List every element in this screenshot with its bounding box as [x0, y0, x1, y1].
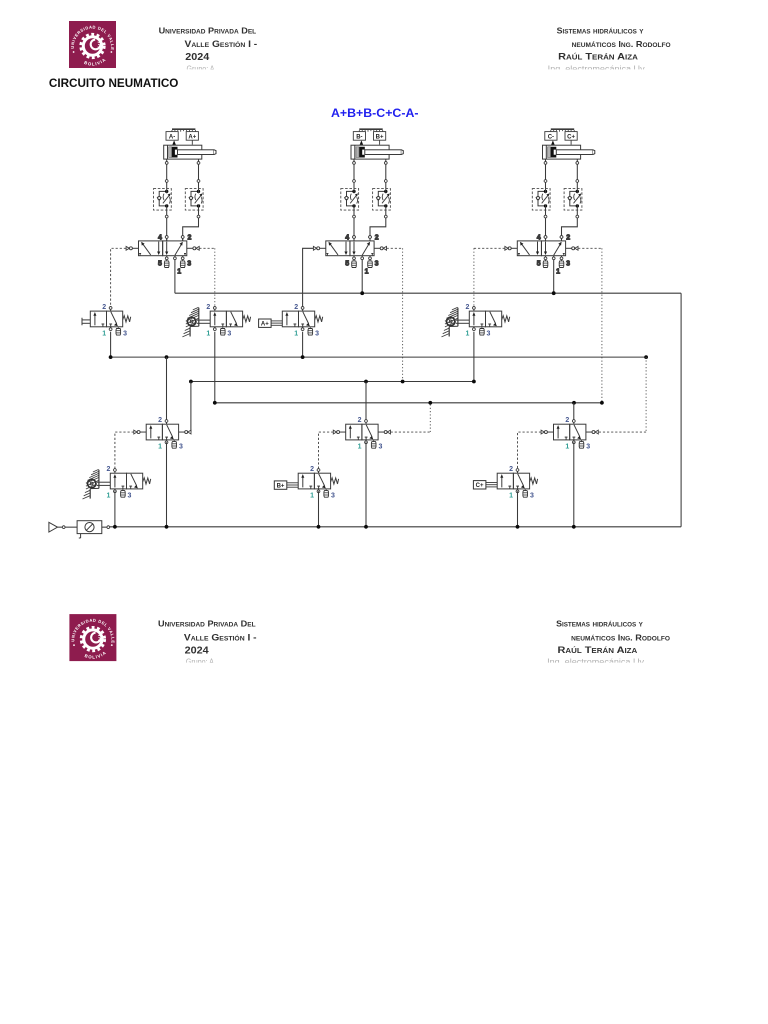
svg-text:Universidad Privada Del: Universidad Privada Del — [158, 619, 256, 629]
svg-text:3: 3 — [123, 331, 127, 338]
svg-text:3: 3 — [331, 493, 335, 500]
svg-text:2: 2 — [358, 417, 362, 424]
svg-text:Sistemas hidráulicos y: Sistemas hidráulicos y — [557, 26, 644, 36]
svg-text:C-: C- — [548, 134, 554, 140]
svg-text:Sistemas hidráulicos y: Sistemas hidráulicos y — [556, 619, 643, 629]
position label box B- — [353, 132, 365, 141]
svg-text:A+B+B-C+C-A-: A+B+B-C+C-A- — [331, 108, 419, 120]
piston position marker arrow C — [551, 140, 555, 145]
pilot wire: memory valve 2 right pilot up to line3 — [391, 431, 431, 433]
air service unit — [77, 521, 102, 538]
distance ruler cylinder C — [551, 129, 574, 132]
position label box B+ — [374, 132, 386, 145]
3/2 roller limit valve a1 — [206, 304, 250, 337]
supply riser on right side — [680, 293, 682, 527]
one-way flow control valve A right — [185, 189, 203, 211]
svg-text:1: 1 — [565, 444, 569, 451]
wire cylinder A right port down — [198, 159, 200, 189]
wire: A+ valve port 1 down to bus 1 — [302, 332, 304, 357]
wire B flow-control left to valve port 4 — [353, 210, 355, 241]
pilot wire: memory valve 3 left pilot to C+ valve port 2 — [518, 432, 542, 469]
svg-text:2: 2 — [158, 417, 162, 424]
supply manifold line to 5/2 valves — [175, 292, 681, 294]
svg-text:B+: B+ — [376, 134, 384, 140]
wire: valve B port 1 down to supply manifold — [361, 260, 363, 294]
svg-text:3: 3 — [530, 493, 534, 500]
svg-text:1: 1 — [106, 493, 110, 500]
svg-text:Valle Gestión I -: Valle Gestión I - — [185, 39, 258, 49]
svg-text:neumáticos Ing. Rodolfo: neumáticos Ing. Rodolfo — [571, 632, 670, 642]
right pneumatic pilot of memory valve 3 — [586, 430, 598, 434]
3/2 valve actuated by label B+ — [298, 466, 338, 499]
one-way flow control valve B left — [341, 189, 359, 211]
label box actuator C+ — [473, 481, 497, 490]
5/2-way double pilot valve C — [505, 235, 578, 276]
position label box A- — [166, 132, 178, 141]
pilot wire: memory valve 2 left pilot to B+ valve port 2 — [319, 432, 334, 469]
push button actuator — [82, 318, 90, 326]
header right text block — [548, 26, 671, 74]
wire: start valve port 1 down to bus 1 — [110, 332, 112, 357]
svg-text:Universidad Privada Del: Universidad Privada Del — [159, 26, 257, 36]
svg-text:2: 2 — [102, 304, 106, 311]
wire: bus1 down to memory valve 1 port 2 — [166, 357, 168, 420]
position label box A+ — [186, 132, 198, 145]
roller + trip rail a1 — [182, 307, 210, 337]
svg-text:1: 1 — [509, 493, 513, 500]
label box actuator A+ — [259, 319, 283, 328]
svg-text:3: 3 — [315, 331, 319, 338]
one-way flow control valve C right — [564, 189, 582, 211]
svg-text:Raúl Terán Aiza: Raúl Terán Aiza — [558, 645, 638, 656]
svg-text:1: 1 — [310, 493, 314, 500]
wire cylinder B left port down — [353, 159, 355, 189]
signal line 2 — [191, 381, 474, 383]
svg-text:3: 3 — [487, 331, 491, 338]
left pneumatic pilot of memory valve 2 — [333, 430, 345, 434]
3/2 double pilot memory valve 2 — [346, 417, 383, 450]
header left text block — [159, 26, 258, 74]
one-way flow control valve B right — [373, 189, 391, 211]
svg-text:1: 1 — [465, 331, 469, 338]
position label box C+ — [565, 132, 577, 145]
svg-text:1: 1 — [102, 331, 106, 338]
one-way flow control valve C left — [532, 189, 550, 211]
wire: valve a1 port 1 down to signal line 3 — [214, 332, 216, 403]
wire: line2 down to memory valve 1 right pilot — [190, 382, 192, 433]
compressed air source — [49, 522, 58, 532]
wire: valve A port 1 down to supply manifold — [174, 260, 176, 294]
svg-text:A-: A- — [169, 134, 175, 140]
3/2 double pilot memory valve 3 — [554, 417, 591, 450]
wire: B+ valve port 1 to supply line — [318, 491, 320, 527]
wire C flow-control right to valve port 2 — [562, 210, 578, 241]
wire cylinder B right port down — [385, 159, 387, 189]
svg-text:neumáticos Ing. Rodolfo: neumáticos Ing. Rodolfo — [572, 39, 671, 49]
right pneumatic pilot of memory valve 2 — [378, 430, 390, 434]
svg-text:2: 2 — [565, 417, 569, 424]
5/2-way double pilot valve B — [313, 235, 386, 276]
svg-text:CIRCUITO NEUMATICO: CIRCUITO NEUMATICO — [49, 76, 179, 90]
svg-text:Grupo: A: Grupo: A — [187, 64, 215, 74]
one-way flow control valve A left — [154, 189, 172, 211]
double-acting cylinder B — [351, 145, 403, 159]
roller + trip rail b1 — [442, 307, 470, 337]
svg-text:2024: 2024 — [185, 645, 210, 656]
svg-text:2: 2 — [465, 304, 469, 311]
wire cylinder C right port down — [576, 159, 578, 189]
svg-text:A+: A+ — [261, 322, 269, 328]
wire B flow-control right to valve port 2 — [370, 210, 386, 241]
svg-text:3: 3 — [179, 444, 183, 451]
signal line 3 — [215, 402, 602, 404]
svg-text:3: 3 — [128, 493, 132, 500]
3/2 valve actuated by label C+ — [497, 466, 537, 499]
svg-text:2: 2 — [509, 466, 513, 473]
wire: valve B left pilot to A+ valve port 2 (solid) — [303, 248, 314, 306]
footer right text block — [547, 619, 670, 667]
pilot wire: valve A right pilot (14) to limit valve a1 port 2 — [199, 247, 215, 249]
svg-text:A+: A+ — [188, 134, 196, 140]
3/2 valve with push button (start) — [90, 304, 130, 337]
pilot wire: valve C right pilot down to signal line 3 — [578, 247, 602, 249]
main supply line — [110, 526, 681, 528]
left pneumatic pilot of memory valve 3 — [541, 430, 553, 434]
university logo (footer) — [69, 614, 116, 661]
3/2 double pilot memory valve 1 — [146, 417, 183, 450]
3/2 valve actuated by label A+ — [282, 304, 322, 337]
svg-text:1: 1 — [158, 444, 162, 451]
svg-text:C+: C+ — [476, 483, 484, 489]
svg-text:Ing. electromecánica Uv: Ing. electromecánica Uv — [548, 64, 646, 74]
piston position marker arrow B — [360, 140, 364, 145]
svg-text:1: 1 — [206, 331, 210, 338]
wire: C+ valve port 1 to supply line — [517, 491, 519, 527]
wire A flow-control left to valve port 4 — [166, 210, 168, 241]
wire: valve C port 1 down to supply manifold — [553, 260, 555, 294]
wire: memory valve 3 port 2 up to line3 — [573, 403, 575, 420]
double-acting cylinder C — [543, 145, 595, 159]
position label box C- — [545, 132, 557, 141]
wire cylinder A left port down — [166, 159, 168, 189]
distance ruler cylinder A — [172, 129, 195, 132]
svg-text:2024: 2024 — [185, 52, 210, 63]
svg-text:Valle Gestión I -: Valle Gestión I - — [184, 632, 257, 642]
svg-text:1: 1 — [358, 444, 362, 451]
wire: memory valve 1 port 1 to supply line — [166, 442, 168, 527]
pilot wire: valve B right pilot down to signal line 2 — [387, 247, 403, 249]
5/2-way double pilot valve A — [126, 235, 199, 276]
right pneumatic pilot of memory valve 1 — [179, 430, 191, 434]
pilot wire: valve C left pilot to limit valve b1 port 2 — [474, 247, 505, 249]
pilot wire: valve A left pilot (12) to start valve port 2 — [111, 248, 126, 306]
wire: memory valve 2 port 1 to supply line — [365, 442, 367, 527]
wire cylinder C left port down — [545, 159, 547, 189]
wire: valve b1 port 1 down to signal line 2 — [473, 332, 475, 382]
double-acting cylinder A — [164, 145, 216, 159]
footer left text block — [158, 619, 257, 667]
svg-text:B+: B+ — [277, 484, 285, 490]
svg-text:2: 2 — [294, 304, 298, 311]
svg-text:B-: B- — [356, 134, 362, 140]
wire: memory valve 2 port 2 up to line2 — [365, 382, 367, 420]
university logo (top header) — [69, 21, 116, 68]
svg-text:1: 1 — [294, 331, 298, 338]
wire C flow-control left to valve port 4 — [545, 210, 547, 241]
svg-text:2: 2 — [106, 466, 110, 473]
svg-text:Grupo: A: Grupo: A — [186, 657, 214, 667]
svg-text:C+: C+ — [567, 134, 575, 140]
pilot wire: memory valve 1 left pilot to limit valve port 2 — [115, 432, 134, 469]
wire: memory valve 3 port 1 to supply line — [573, 442, 575, 527]
svg-text:Ing. electromecánica Uv: Ing. electromecánica Uv — [547, 657, 645, 667]
svg-text:Raúl Terán Aiza: Raúl Terán Aiza — [558, 52, 638, 63]
distance ruler cylinder B — [359, 129, 382, 132]
svg-text:2: 2 — [310, 466, 314, 473]
svg-text:3: 3 — [227, 331, 231, 338]
wire: valve a0 port 1 to supply line — [114, 491, 116, 527]
svg-text:2: 2 — [206, 304, 210, 311]
roller + trip rail a0 — [83, 469, 111, 499]
bus line 1 — [111, 356, 647, 358]
pilot wire: bus1 to memory valve 3 right pilot — [645, 357, 647, 432]
label box actuator B+ — [274, 481, 298, 490]
wire A flow-control right to valve port 2 — [183, 210, 199, 241]
3/2 roller limit valve b1 — [465, 304, 509, 337]
svg-text:3: 3 — [379, 444, 383, 451]
svg-text:3: 3 — [586, 444, 590, 451]
3/2 roller limit valve a0 — [106, 466, 150, 499]
piston position marker arrow A — [172, 140, 176, 145]
left pneumatic pilot of memory valve 1 — [134, 430, 146, 434]
